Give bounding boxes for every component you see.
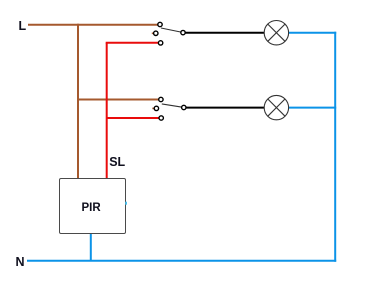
svg-text:PIR: PIR xyxy=(82,202,102,214)
wire brown vertical main drop xyxy=(77,24,79,179)
wire brown branch to switch 2 xyxy=(78,99,161,101)
switch SW2 common terminal xyxy=(182,105,186,109)
svg-text:SL: SL xyxy=(109,155,125,169)
switch SW1 stub terminal xyxy=(152,32,154,34)
switch SW2 stub terminal xyxy=(152,107,154,109)
wire red branch to switch 1 xyxy=(107,43,161,44)
lamp LP2 xyxy=(264,95,288,119)
lamp LP1 xyxy=(264,21,288,45)
wire L brown horizontal top xyxy=(28,24,160,26)
switch SW2 lever xyxy=(162,104,184,108)
wire blue lamp 2 to right bus xyxy=(289,107,336,109)
PIR sensor box xyxy=(60,179,126,234)
wire black switch 2 common to lamp 2 xyxy=(184,107,265,109)
switch SW1 common terminal xyxy=(181,30,185,34)
wire black switch 1 common to lamp 1 xyxy=(183,32,265,34)
wire red SL vertical xyxy=(106,43,108,179)
switch SW2 throw terminal L2 xyxy=(154,106,158,110)
PIR box selection tick xyxy=(125,202,127,205)
wire red branch to switch 2 xyxy=(107,117,161,119)
switch SW1 throw terminal (red) xyxy=(158,41,162,45)
wire blue right vertical bus xyxy=(334,32,336,262)
switch SW1 throw terminal L2 xyxy=(154,31,158,35)
wire blue PIR neutral tail xyxy=(90,233,92,261)
wire blue lamp 1 to right bus xyxy=(289,32,336,34)
svg-text:N: N xyxy=(16,255,25,269)
svg-text:L: L xyxy=(19,19,27,33)
wire N blue horizontal xyxy=(27,260,336,262)
switch SW1 throw terminal L1 (brown) xyxy=(158,22,162,26)
switch SW2 throw terminal L1 (brown) xyxy=(159,97,163,101)
switch SW1 lever xyxy=(161,28,183,33)
switch SW2 throw terminal (red) xyxy=(159,116,163,120)
